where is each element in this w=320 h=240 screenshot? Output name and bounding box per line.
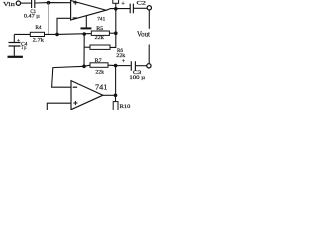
- svg-text:0.47 µ: 0.47 µ: [24, 14, 40, 20]
- wire left of R4: [14, 33, 30, 35]
- svg-text:+: +: [17, 38, 20, 44]
- wire R4 to R5 (inverting node line): [45, 33, 92, 36]
- wire Vout down to bottom terminal: [148, 45, 150, 64]
- terminal Vin: [16, 1, 20, 5]
- op-amp U1: [71, 1, 106, 21]
- wire R5 right to rail: [109, 32, 115, 34]
- node H junction (U2 output/R10): [114, 94, 118, 98]
- svg-text:+: +: [122, 59, 125, 65]
- node A junction: [47, 1, 51, 5]
- resistor R6: [90, 45, 110, 49]
- resistor (cut off at top edge): [113, 0, 119, 3]
- wire C2 to Vout terminal: [134, 7, 147, 9]
- wire node D up to resistor: [115, 3, 117, 9]
- node D junction (U1 output): [114, 7, 118, 11]
- svg-text:741: 741: [95, 84, 108, 92]
- wire U2 + input down to bottom edge: [47, 103, 71, 110]
- terminal Vout bottom: [147, 64, 151, 68]
- node B junction (R4/R5 to - input): [55, 33, 59, 37]
- svg-text:1 µ: 1 µ: [21, 45, 26, 51]
- wire Vin terminal to C1: [21, 2, 31, 4]
- wire U2 output: [103, 94, 116, 96]
- node G junction (R7/C3/U2 out): [114, 64, 118, 68]
- wire U1 output: [106, 9, 130, 11]
- svg-text:100 µ: 100 µ: [129, 75, 145, 81]
- ground (C4): [8, 56, 23, 58]
- op-amp U2: [71, 81, 103, 110]
- wire left rail (node C down to node F): [83, 34, 85, 66]
- wire Vout terminal down: [148, 10, 150, 29]
- ground (U1): [85, 16, 87, 28]
- capacitor C1: [32, 0, 35, 8]
- svg-text:R10: R10: [120, 104, 131, 110]
- node F junction (R7 left / feedback): [82, 65, 86, 69]
- svg-text:741: 741: [97, 16, 105, 22]
- wire R7 right to node G: [108, 64, 116, 66]
- wire node G down to U2 output: [115, 66, 117, 96]
- svg-text:2.7k: 2.7k: [33, 37, 45, 43]
- wire node A down to R4 node: [48, 3, 50, 35]
- svg-text:+: +: [121, 1, 125, 8]
- svg-text:Vin: Vin: [3, 2, 15, 8]
- svg-text:C2: C2: [137, 1, 147, 7]
- resistor R10 (cut off at bottom edge): [115, 95, 117, 102]
- wire U2 feedback loop (node F to - input): [52, 66, 84, 87]
- wire rail down to R6: [110, 33, 116, 47]
- node E junction (R5/rail): [114, 31, 118, 35]
- wire C1 to op-amp U1 + input: [36, 2, 71, 4]
- svg-text:22k: 22k: [95, 69, 104, 75]
- svg-text:Vout: Vout: [137, 30, 150, 38]
- svg-text:R4: R4: [35, 25, 41, 31]
- svg-text:22k: 22k: [95, 35, 105, 41]
- wire R6 left to left rail: [84, 46, 90, 48]
- node C junction (rail tap): [82, 32, 86, 36]
- wire C3 to bottom terminal: [136, 65, 147, 67]
- terminal Vout top: [147, 6, 151, 10]
- capacitor C4: [13, 34, 15, 42]
- wire node B up and to op-amp U1 - input: [57, 18, 71, 34]
- wire R7 left to node F: [84, 65, 90, 66]
- wire node D down the right rail to R5/R6: [115, 9, 117, 33]
